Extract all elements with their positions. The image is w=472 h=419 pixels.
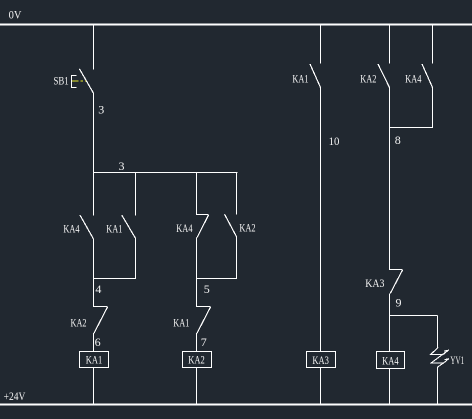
- node 3 horizontal wire: [93, 172, 238, 174]
- contact KA4 (NO) blade: [422, 64, 433, 88]
- switch SB1 blade: [79, 69, 94, 94]
- wire: 0V rail to SB1: [93, 25, 95, 69]
- contact KA3 (NC) blade: [390, 270, 402, 293]
- wire: coil KA1 to +24V rail: [93, 368, 95, 405]
- svg-text:KA4: KA4: [382, 353, 399, 367]
- wire: KA2 NC to coil KA1: [93, 333, 95, 351]
- svg-text:SB1: SB1: [54, 73, 69, 87]
- wire: node 4 down to KA2 NC contact: [93, 279, 95, 307]
- contact KA1 (NC) tick: [196, 306, 211, 308]
- wire below KA1 contact: [135, 239, 137, 279]
- svg-text:+24V: +24V: [4, 389, 26, 403]
- SB1 pushbutton actuator bracket: [72, 75, 77, 87]
- contact KA2 (NC) tick: [93, 306, 108, 308]
- svg-text:KA1: KA1: [106, 222, 122, 236]
- coil KA1 box: [80, 352, 109, 368]
- svg-text:3: 3: [119, 159, 125, 173]
- wire below KA4 contact: [93, 239, 95, 279]
- svg-text:KA1: KA1: [86, 353, 103, 367]
- wire: node3 down to contact KA1 (branch 2): [135, 173, 137, 216]
- wire: node 9 down to solenoid YV1: [437, 316, 439, 348]
- wire: SB1 to node 3: [93, 94, 95, 174]
- svg-text:8: 8: [395, 133, 401, 147]
- wire: solenoid YV1 to +24V rail: [437, 367, 439, 404]
- node 8 join wire: [390, 127, 434, 129]
- 0V rail: [0, 24, 472, 26]
- svg-text:4: 4: [95, 282, 101, 296]
- wire: node 5 down to KA1 NC contact: [196, 279, 198, 307]
- svg-text:KA3: KA3: [312, 353, 329, 367]
- contact KA1 (NO) blade: [122, 215, 136, 239]
- +24V rail: [0, 404, 472, 406]
- svg-text:KA4: KA4: [405, 72, 421, 86]
- svg-text:KA3: KA3: [365, 276, 384, 290]
- wire: contact KA2 down to contact KA3 NC: [389, 88, 391, 270]
- node 9 horizontal wire: [390, 315, 438, 317]
- svg-text:KA1: KA1: [292, 72, 308, 86]
- wire: node3 down to contact KA2 (branch 4): [236, 173, 238, 215]
- wire: KA1 NC to coil KA2: [196, 333, 198, 351]
- contact KA4 (NC) tick: [196, 214, 209, 216]
- wire below KA2 contact: [236, 237, 238, 279]
- svg-text:KA2: KA2: [239, 221, 255, 235]
- coil KA4 box: [377, 352, 405, 369]
- wire: 0V rail to contact KA1 (branch 5): [320, 25, 322, 64]
- svg-text:YV1: YV1: [450, 353, 464, 367]
- svg-text:KA2: KA2: [360, 72, 376, 86]
- coil KA2 box: [183, 352, 212, 368]
- wire: 0V rail to contact KA4 (branch 7): [432, 25, 434, 64]
- wire: KA3 NC to node 9: [389, 293, 391, 316]
- svg-text:6: 6: [95, 335, 101, 349]
- node 5 join wire: [196, 278, 237, 280]
- svg-text:5: 5: [204, 282, 210, 296]
- contact KA1 (NC) blade: [197, 307, 211, 333]
- svg-text:KA4: KA4: [63, 222, 79, 236]
- wire: node3 down to contact KA4 NC (branch 3): [196, 173, 198, 215]
- contact KA2 (NC) blade: [94, 307, 108, 333]
- svg-text:KA1: KA1: [173, 316, 189, 330]
- svg-text:7: 7: [201, 335, 207, 349]
- svg-text:KA2: KA2: [188, 353, 205, 367]
- contact KA2 (NO) blade: [225, 214, 237, 237]
- wire: node 9 down to coil KA4: [389, 316, 391, 352]
- wire: coil KA2 to +24V rail: [196, 368, 198, 405]
- contact KA3 (NC) tick: [389, 269, 403, 271]
- wire: 0V rail to contact KA2 (branch 6): [389, 25, 391, 64]
- solenoid YV1 symbol: [431, 347, 449, 367]
- wire: coil KA4 to +24V rail: [389, 368, 391, 404]
- wire: node3 down to contact KA4 (branch 1): [93, 173, 95, 216]
- node 4 join wire: [93, 278, 136, 280]
- svg-text:9: 9: [396, 295, 402, 309]
- wire below KA4 contact: [432, 88, 434, 128]
- SB1 actuator link (yellow dashed): [72, 80, 86, 82]
- contact KA2 (NO) blade: [378, 64, 390, 88]
- wire: coil KA3 to +24V rail: [320, 368, 322, 404]
- svg-text:KA4: KA4: [176, 221, 192, 235]
- contact KA1 (NO) blade: [310, 64, 321, 88]
- svg-text:10: 10: [329, 134, 340, 148]
- wire: contact KA1 to coil KA3: [320, 88, 322, 352]
- svg-text:3: 3: [98, 103, 104, 117]
- wire below KA4 NC contact: [196, 238, 198, 279]
- svg-text:KA2: KA2: [71, 315, 87, 329]
- contact KA4 (NO) blade: [80, 215, 94, 239]
- contact KA4 (NC) blade: [197, 215, 208, 238]
- coil KA3 box: [307, 352, 336, 368]
- svg-text:0V: 0V: [9, 8, 22, 22]
